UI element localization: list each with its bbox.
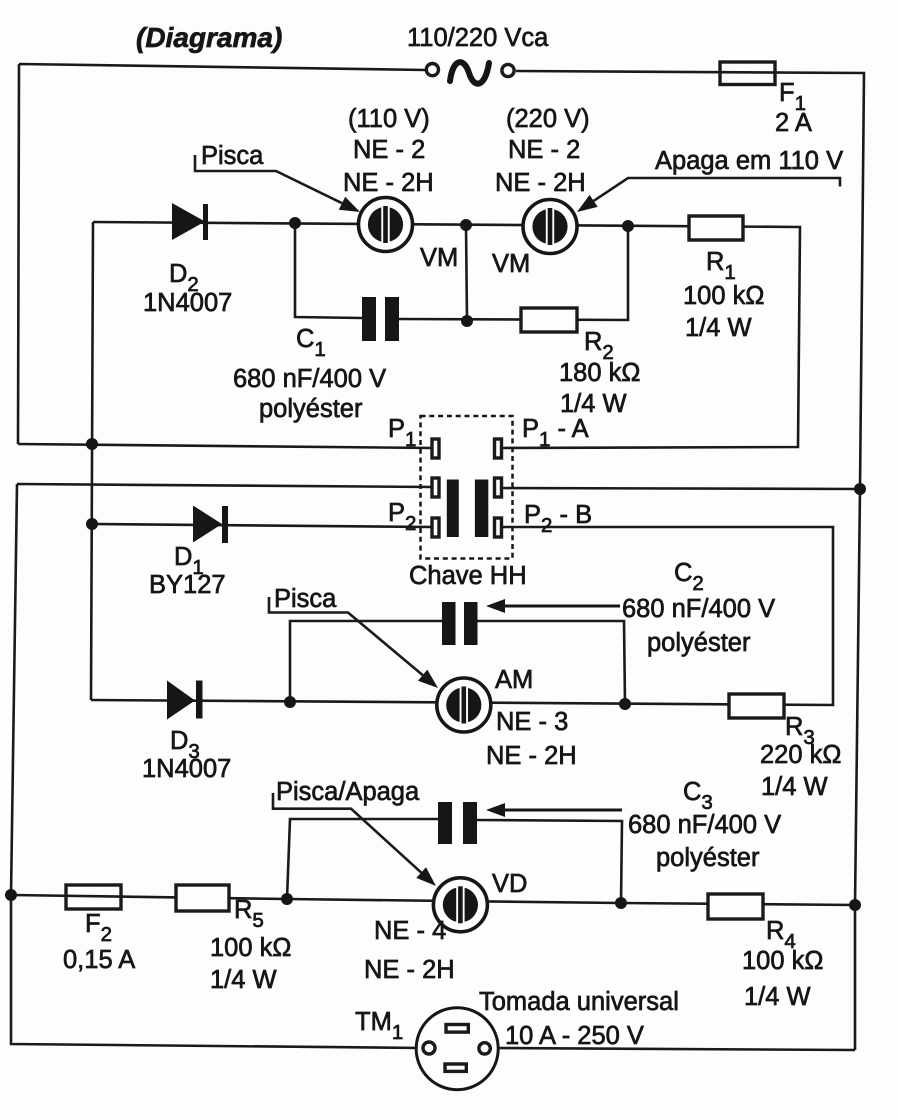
wire row1 P1 from left border [18,444,433,448]
svg-text:VD: VD [492,870,527,898]
svg-text:(Diagrama): (Diagrama) [136,22,282,53]
svg-text:180 kΩ: 180 kΩ [559,359,640,387]
wire F2 R5 lamp NE-4 R4 row [11,895,855,905]
resistor R5 [176,885,229,911]
switch pin P1 left [432,439,439,458]
fuse F2 [66,885,121,909]
svg-text:Apaga em 110 V: Apaga em 110 V [655,147,843,175]
svg-text:1N4007: 1N4007 [142,755,231,783]
svg-text:680 nF/400 V: 680 nF/400 V [622,595,775,623]
svg-text:VM: VM [420,244,458,272]
diode D2 [172,203,208,240]
neon lamp NE-3 [437,678,491,732]
leader arrow Pisca top [195,155,360,212]
svg-text:1N4007: 1N4007 [143,289,232,317]
node row2 right-border junction [854,483,866,495]
diode D1 [193,506,228,544]
node P1 rail junction [86,438,98,450]
wire row2 right to border [501,488,860,489]
svg-text:100 kΩ: 100 kΩ [742,947,823,975]
wire D1 row [92,524,433,527]
svg-text:NE - 2H: NE - 2H [495,169,586,197]
socket TM1 [416,1008,498,1090]
svg-text:VM: VM [492,250,530,278]
svg-text:100 kΩ: 100 kΩ [210,934,291,962]
svg-text:0,15 A: 0,15 A [63,946,135,974]
switch pin P2 left [432,518,439,537]
svg-text:NE - 2H: NE - 2H [343,169,434,197]
svg-text:NE - 2: NE - 2 [508,136,580,164]
capacitor C3 [438,802,477,844]
node D3-C2-lamp3 junction [284,696,296,708]
neon lamp NE-4 [433,878,487,932]
svg-text:BY127: BY127 [149,571,226,599]
capacitor C2 [442,602,478,645]
neon lamp NE-2 110V [359,198,413,252]
svg-text:(110 V): (110 V) [348,105,430,133]
fuse F1 [720,62,775,85]
node D2-lamp1-C1 junction [289,217,301,229]
leader arrow C2 [486,599,620,613]
svg-text:1/4 W: 1/4 W [761,773,828,801]
node R5-C3-lamp4 junction [281,893,293,905]
svg-text:polyéster: polyéster [647,629,751,657]
wire D3 lamp NE-3 row to R3 and up to P2-B [91,527,833,705]
leader arrow Apaga em 110 V [577,178,840,212]
svg-text:Pisca/Apaga: Pisca/Apaga [276,778,420,806]
svg-text:NE - 3: NE - 3 [496,708,568,736]
svg-text:220 kΩ: 220 kΩ [760,741,841,769]
svg-text:Pisca: Pisca [274,585,337,613]
svg-text:10 A - 250 V: 10 A - 250 V [505,1022,644,1050]
svg-text:680 nF/400 V: 680 nF/400 V [628,811,781,839]
node R4 right-border junction [849,899,861,911]
wire top-left border [18,64,426,444]
wire bottom right to socket [491,1048,855,1050]
capacitor C1 [362,297,399,341]
switch pin P2-B right [495,518,502,537]
wire C3 left branch [287,819,438,899]
switch pin row2 right [495,478,502,497]
svg-text:Tomada universal: Tomada universal [479,988,679,1016]
wire left lower border [11,484,423,1048]
svg-text:NE - 2H: NE - 2H [364,956,455,984]
wire C2 right branch down [477,621,625,704]
node F2 left-border junction [5,889,17,901]
svg-text:(220 V): (220 V) [506,105,590,133]
svg-text:NE - 2H: NE - 2H [486,742,577,770]
svg-text:polyéster: polyéster [656,844,760,872]
svg-text:1/4 W: 1/4 W [744,983,811,1011]
node D1 rail junction [86,518,98,530]
svg-text:1/4 W: 1/4 W [210,966,277,994]
svg-text:Pisca: Pisca [201,142,264,170]
leader arrow Pisca middle [269,597,438,688]
svg-text:Chave HH: Chave HH [409,562,527,590]
wire top-right to fuse F1 and right border [516,71,864,1050]
wire C3 right branch down [477,820,622,903]
resistor R4 [708,894,763,919]
wire C1 right to R2 and up [399,226,628,320]
resistor R2 [521,308,577,332]
svg-text:110/220 Vca: 110/220 Vca [407,24,549,52]
wire D2 lamp row to R1 and down to P1-A [93,222,800,448]
svg-text:2 A: 2 A [775,109,812,137]
svg-text:AM: AM [495,666,533,694]
svg-text:polyéster: polyéster [259,395,363,423]
switch Chave HH dashed box [421,416,513,559]
node lamp1-lamp2 junction [460,219,472,231]
wire lamp junction vertical [466,225,467,321]
svg-text:680 nF/400 V: 680 nF/400 V [233,365,386,393]
svg-text:100 kΩ: 100 kΩ [683,282,764,310]
resistor R3 [729,694,784,718]
svg-text:NE - 2: NE - 2 [353,136,425,164]
node lamp2-R1 junction [622,220,634,232]
wire C1 left branch [295,223,362,318]
diode D3 [167,681,203,720]
switch pin P1-A right [495,439,502,458]
node lamp4-C3-R4 junction [615,897,627,909]
wire inner left vertical rail [91,222,93,700]
switch pole bars [447,480,489,538]
neon lamp NE-2 220V [523,200,577,254]
wire row2 left [17,484,433,487]
wire C2 left branch [290,621,442,702]
AC source terminals 110/220 Vca [426,64,438,76]
svg-text:1/4 W: 1/4 W [560,390,627,418]
resistor R1 [689,216,743,240]
node lamp3-C2-R3 junction [619,698,631,710]
switch pin row2 left [432,478,439,497]
leader arrow Pisca/Apaga [273,793,436,886]
leader arrow C3 [486,803,622,817]
svg-text:1/4 W: 1/4 W [685,314,752,342]
svg-text:NE - 4: NE - 4 [374,917,446,945]
node C1-R2 junction [461,315,473,327]
